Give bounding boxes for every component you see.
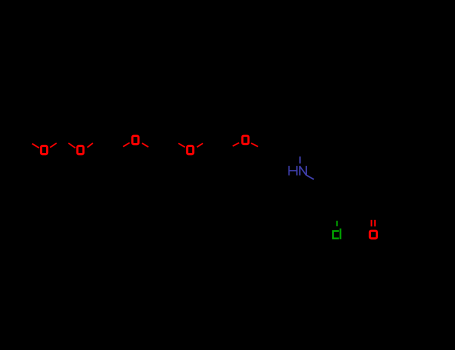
wire CH2-O2 red half-bond (68, 143, 75, 148)
wire N-ring black half (314, 179, 319, 183)
atom O3 (ether oxygen label) (132, 136, 138, 144)
atom O2 (ether oxygen label) (77, 146, 83, 154)
wire O5-CH2CH2CH2-N (245, 140, 300, 150)
atom O4 (ether oxygen label) (187, 146, 193, 154)
wire C-N vertical black half (299, 150, 301, 157)
atom N (HN amine label): N left stem (299, 166, 301, 176)
wire N-ring blue half-bond (diagonal) (306, 175, 313, 179)
wire ringC-carbonyl C (355, 205, 373, 215)
wire CH2-O4 red half-bond (178, 143, 185, 147)
atom N (HN amine label): H left stem (288, 166, 290, 176)
wire CH2-N blue half-bond (vertical) (299, 157, 301, 164)
benzene ring 2 (phenyl, invisible) (392, 173, 429, 215)
atom N (HN amine label): N right stem (305, 166, 307, 176)
atom O6 (carbonyl oxygen label) (370, 231, 377, 239)
wire ringC-Cl green half-bond (vertical) (336, 221, 338, 226)
wire O2-CH2CH2-O3 (80, 140, 135, 150)
wire C=O red double-bond halves (vertical pair) (370, 220, 372, 227)
atom O5 (ether oxygen label) (242, 136, 248, 144)
wire CH3-O1 red half-bond (32, 144, 39, 148)
wire O4-CH2CH2-O5 (190, 140, 245, 150)
wire ringC-Cl black half (336, 215, 338, 221)
wire carbonyl C-ring2 (374, 205, 392, 215)
wire O5-CH2 red half-bond (251, 143, 258, 147)
wire CH2-O5 red half-bond (233, 143, 239, 146)
atom Cl (chlorine label): l stroke (339, 229, 341, 240)
atom N (HN amine label): N diagonal (300, 166, 307, 175)
wire carbonyl C=O black halves (370, 215, 372, 220)
atom Cl (chlorine label): squared C stroke (333, 231, 339, 238)
wire CH3-O1-CH2-O2 chain backbone (26, 140, 80, 150)
atom N (HN amine label): H right stem (296, 166, 298, 176)
wire O4-CH2 red half-bond (197, 143, 203, 147)
wire O3-CH2 red half-bond (142, 143, 148, 147)
wire CH2-O3 red half-bond (123, 143, 130, 147)
benzene ring 1 (chloro-amino ring, invisible) (319, 173, 356, 215)
atom N (HN amine label): H crossbar (289, 170, 297, 172)
atom O1 (ether oxygen label) (41, 146, 47, 154)
wire O3-CH2CH2-O4 (135, 140, 190, 150)
wire O2-CH2 red half-bond (87, 143, 93, 147)
wire O1-CH2 red half-bond (50, 143, 57, 147)
